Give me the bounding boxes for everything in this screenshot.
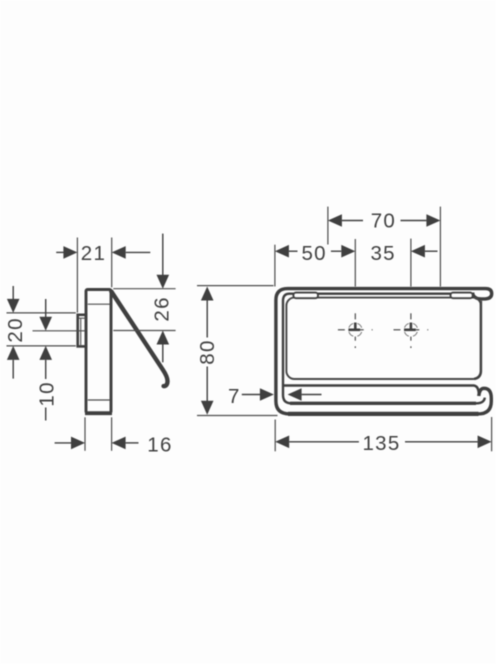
front view inner wire line xyxy=(283,294,485,404)
dimension 135 xyxy=(275,432,491,455)
svg-text:26: 26 xyxy=(151,296,174,321)
wire: extension line 70-right xyxy=(439,207,441,287)
plate tab left xyxy=(293,293,318,299)
svg-text:16: 16 xyxy=(147,434,172,457)
mounting hole target 2 xyxy=(394,313,429,348)
front view outer wire outline with end hooks xyxy=(276,289,492,414)
wire: extension line 21-right xyxy=(111,238,113,288)
wire: extension line 16-left xyxy=(84,417,86,451)
dimension 21 arrows and tails xyxy=(56,242,150,265)
dimension 35 xyxy=(370,242,437,265)
wire: extension line 21-left xyxy=(76,238,78,313)
dimension 16 xyxy=(55,434,173,457)
mounting hole target 1 xyxy=(338,313,373,348)
svg-text:20: 20 xyxy=(4,317,27,342)
svg-text:80: 80 xyxy=(196,339,219,364)
svg-text:21: 21 xyxy=(81,242,106,265)
dimension 70 xyxy=(328,210,441,233)
left view wall-mount block xyxy=(78,315,86,347)
svg-text:7: 7 xyxy=(228,385,241,408)
dimension 20 xyxy=(4,286,27,379)
wire: extension line 50-left xyxy=(274,245,276,287)
dimension 80 xyxy=(196,287,219,415)
wire: extension line 10-top (hole axis) xyxy=(33,330,85,332)
wire: block inner vertical line xyxy=(80,318,82,345)
left view roll-holder arm (diagonal) xyxy=(111,292,167,387)
wire: extension line 26-top xyxy=(113,288,175,290)
wire: extension line 20/10-bottom xyxy=(7,345,76,347)
dimension 7 (leader) xyxy=(228,385,322,408)
wire: extension line 20-top xyxy=(7,312,76,314)
svg-text:135: 135 xyxy=(362,432,400,455)
plate tab right xyxy=(451,293,473,299)
dimension 26 xyxy=(151,234,174,363)
wire: extension line 70-left xyxy=(327,207,329,245)
svg-text:10: 10 xyxy=(36,381,59,406)
wire: extension line 16-right xyxy=(111,417,113,451)
wire: block inner horizontal line xyxy=(79,317,86,319)
wire: front view inner bottom heavy segment xyxy=(290,402,476,405)
wire: plate inner top line xyxy=(88,303,110,305)
wire: front view outer bottom heavy segment xyxy=(288,412,479,416)
left view wall plate (side profile) xyxy=(86,290,111,414)
wire: plate inner bottom line xyxy=(88,399,110,401)
front view shelf edge with hook tip xyxy=(284,386,479,395)
svg-text:70: 70 xyxy=(371,210,396,233)
wire: extension line 135-right xyxy=(491,417,493,451)
wire: plate right edge heavy segment xyxy=(474,301,481,379)
dimension 50 xyxy=(275,242,355,265)
wire: left plate bottom heavy segment xyxy=(85,411,112,415)
wire: extension line 80-bottom xyxy=(197,415,278,417)
wire: extension line 26-bottom (hole axis) xyxy=(113,330,175,332)
front view back plate xyxy=(286,298,481,379)
dimension 10 xyxy=(36,299,59,421)
wire: extension line hole-1 xyxy=(354,239,356,287)
svg-text:50: 50 xyxy=(301,242,326,265)
wire: extension line 135-left xyxy=(274,420,276,452)
svg-text:35: 35 xyxy=(370,242,395,265)
wire: extension line hole-2 xyxy=(410,239,412,287)
wire: extension line 80-top xyxy=(197,285,274,287)
